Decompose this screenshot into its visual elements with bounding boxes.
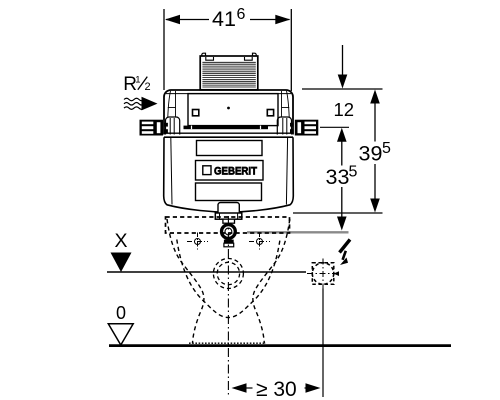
gray seat level line [247,231,349,233]
dimension 33.5 lower arrow [337,217,347,231]
logo rect [196,161,264,181]
svg-text:5: 5 [382,140,391,157]
dimension 41.6 extension line right [290,9,292,91]
svg-text:33: 33 [326,165,350,189]
dimension 33.5 line upper [341,139,343,166]
dimension >=30 line [245,387,253,389]
dimension 39.5 upper arrow [370,90,380,104]
service rect top [197,141,263,156]
flush bend tail [224,240,234,244]
dimension 39.5 lower arrow [370,199,380,213]
dimension 33.5 upper arrow [337,128,347,142]
svg-text:41: 41 [212,7,236,31]
svg-text:1: 1 [135,75,140,86]
svg-text:39: 39 [359,142,383,166]
lightning bolt [340,240,351,253]
protection box body [200,56,258,90]
svg-text:0: 0 [116,303,126,323]
level X marker triangle [111,253,132,273]
floor line [109,344,451,347]
dimension 39.5 label [359,140,392,166]
dimension 41.6 arrow left [165,15,180,25]
flush bend ring [222,225,236,239]
bottom reference line (cistern bottom level) [293,212,383,214]
panel slot gap right [260,126,262,130]
cistern lid seam [166,93,291,95]
lower body inner wall left [171,137,172,204]
flush bend collar [223,219,235,223]
dimension 41.6 label [212,6,246,31]
service rect bottom [196,183,262,201]
supply point extension line [322,289,324,398]
water supply waves [124,98,144,101]
protection box tab left [202,53,206,56]
dimension 12 label [334,99,355,120]
supply point crosshair vertical [322,259,324,289]
supply nipple right flange bits [290,123,294,127]
fixing point right [249,233,270,251]
supply nipple left [140,120,164,136]
flush valve box right [277,117,291,135]
inlet valve box verticals left [169,118,171,135]
supply point arrow tip [334,271,340,276]
zero level open triangle [108,324,133,345]
centre line of pan [227,216,229,397]
zero level label [116,303,126,323]
cistern upper body outline [164,90,293,135]
svg-text:X: X [115,230,128,252]
supply nipple right [295,120,319,136]
panel clip left [193,110,199,116]
cistern band line upper [164,132,293,134]
dimension >=30 arrow left [232,383,247,393]
mounting frame dashed rect [166,217,290,233]
dimension 41.6 arrow right [275,15,290,25]
label R 1/2 [123,74,150,95]
lower body inner wall right [286,137,287,204]
dimension 39.5 line upper [374,101,376,142]
level X line [107,271,306,273]
dimension 41.6 extension line left [163,9,165,90]
flush valve box verticals right [282,118,284,135]
dimension 33.5 line lower [341,187,343,218]
panel center dot [227,107,230,110]
svg-text:2: 2 [145,81,151,93]
panel clip right [267,110,273,116]
WC pan inner bowl curve [177,240,280,318]
svg-text:≥ 30: ≥ 30 [256,378,297,400]
supply point dashed square [312,263,334,285]
protection box notch left [206,57,214,60]
trap outlet circle outer [213,259,243,289]
svg-text:12: 12 [334,99,355,120]
svg-text:6: 6 [237,6,246,23]
protection box tab right [253,53,257,56]
supply nipple left flange bits [164,123,168,127]
fixing point left [187,233,208,251]
dimension 12 upper tail [342,45,344,76]
protection box stripes [202,62,255,87]
dimension 39.5 line lower [374,164,376,201]
dimension 12 upper arrow [338,75,348,89]
flush bend nut [215,213,242,219]
cistern lower body outline [164,137,294,212]
panel bottom slot [184,126,269,130]
flush bend neck [218,203,239,214]
top reference line (cistern top level) [302,88,383,90]
cistern corner moulding left [168,91,171,117]
dimension 33.5 label [326,164,358,190]
svg-text:GEBERIT: GEBERIT [214,166,257,178]
supply point crosshair horizontal [307,273,339,275]
WC pan base dotted line [189,342,266,344]
trap outlet circle inner [217,262,239,284]
dimension 41.6 line [166,19,209,21]
WC pan outer profile right [253,219,290,344]
WC pan outer profile left [167,219,204,344]
lightning arrowhead [340,258,348,266]
dimension >=30 arrow right [306,383,321,393]
level X label [115,230,128,252]
panel slot gap left [191,126,193,130]
logo square [203,166,211,175]
supply point dashed circle [312,263,333,284]
dimension >=30 label [256,378,297,400]
logo text GEBERIT [214,166,257,178]
inlet valve box left [166,117,180,135]
svg-text:5: 5 [349,164,358,181]
cistern corner vertical left [175,91,177,117]
access panel [188,94,278,126]
connector axis stub line [320,126,349,128]
cistern band line lower [164,136,293,138]
protection box notch right [245,57,253,60]
cistern corner moulding right [287,91,290,117]
cistern corner vertical right [281,91,283,117]
water supply arrow [142,97,158,111]
